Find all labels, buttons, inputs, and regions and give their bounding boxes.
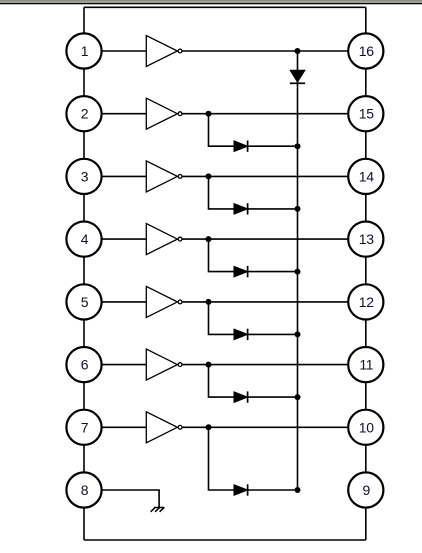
svg-text:3: 3 [81, 168, 89, 184]
wire: pin 2 to inverter 2 input [84, 113, 146, 115]
wire: diode D6 cathode to COM rail [248, 396, 298, 398]
wire: pin 1 to inverter 1 input [84, 50, 146, 52]
wire: right edge bus through pins 16-9 [365, 7, 367, 540]
pin 15 [348, 96, 383, 131]
wire: pin 8 to ground [84, 490, 159, 507]
wire: diode D5 cathode to COM rail [248, 333, 298, 335]
svg-text:16: 16 [359, 43, 374, 59]
junction: D2 cathode on COM rail [295, 143, 301, 149]
pin 12 [348, 284, 383, 319]
wire: inverter 6 output to pin 11 [180, 364, 366, 366]
junction: D6 cathode on COM rail [295, 394, 301, 400]
diode D7 [234, 485, 248, 496]
wire: inverter 7 output to pin 10 [180, 426, 366, 428]
wire: diode D7 cathode to COM rail [248, 489, 298, 491]
svg-text:12: 12 [359, 294, 374, 310]
wire: inverter 2 output to pin 15 [180, 113, 366, 115]
junction: D3 cathode on COM rail [295, 206, 301, 212]
diode D3 [234, 204, 248, 215]
wire: output node 5 down to diode D5 [209, 302, 236, 335]
svg-text:11: 11 [359, 357, 373, 373]
wire: pin 4 to inverter 4 input [84, 238, 146, 240]
pin 10 [348, 410, 383, 445]
svg-text:10: 10 [359, 419, 374, 435]
svg-text:5: 5 [81, 294, 89, 310]
inverter 2 (op-amp style buffer U1B) [146, 98, 182, 129]
pin 9 [348, 472, 383, 507]
junction: inverter 1 output node on pin 16 wire [295, 48, 301, 54]
junction: inverter 5 output node [206, 299, 212, 305]
junction: inverter 3 output node [206, 173, 212, 179]
wire: pin 7 to inverter 7 input [84, 426, 146, 428]
wire: output node 3 down to diode D3 [209, 176, 236, 209]
inverter 4 (op-amp style buffer U1D) [146, 224, 182, 255]
svg-text:14: 14 [359, 168, 374, 184]
svg-text:8: 8 [81, 482, 89, 498]
wire: inverter 1 output to pin 16 [180, 50, 366, 52]
diode D5 [234, 329, 248, 340]
inverter 3 (op-amp style buffer U1C) [146, 161, 182, 192]
pin 5 [66, 284, 101, 319]
svg-text:9: 9 [363, 482, 371, 498]
wire: pin 5 to inverter 5 input [84, 301, 146, 303]
inverter 5 (op-amp style buffer U1E) [146, 286, 182, 317]
pin 2 [66, 96, 101, 131]
inverter 7 (op-amp style buffer U1G) [146, 412, 182, 443]
wire: pin 3 to inverter 3 input [84, 175, 146, 177]
pin 7 [66, 410, 101, 445]
svg-text:4: 4 [81, 231, 89, 247]
wire: COM rail (pin 9 common diode bus) [297, 51, 299, 490]
pin 4 [66, 222, 101, 257]
pin 6 [66, 347, 101, 382]
junction: D7 cathode on COM rail [295, 487, 301, 493]
svg-text:2: 2 [81, 106, 89, 122]
pin 11 [348, 347, 383, 382]
wire: diode D2 cathode to COM rail [248, 145, 298, 147]
pin 3 [66, 159, 101, 194]
diode D2 [234, 141, 248, 152]
diode D1 (vertical, anode at pin 16 node, cathode to COM rail) [290, 70, 305, 82]
diode D6 [234, 392, 248, 403]
junction: inverter 7 output node [206, 424, 212, 430]
junction: D4 cathode on COM rail [295, 269, 301, 275]
svg-text:15: 15 [359, 106, 374, 122]
wire: output node 6 down to diode D6 [209, 365, 236, 398]
pin 1 [66, 33, 101, 68]
diode D4 [234, 266, 248, 277]
pin 13 [348, 222, 383, 257]
junction: D5 cathode on COM rail [295, 331, 301, 337]
wire: inverter 4 output to pin 13 [180, 238, 366, 240]
wire: left edge bus through pins 1-8 [83, 7, 85, 540]
wire: output node 2 down to diode D2 [209, 114, 236, 147]
svg-text:7: 7 [81, 419, 89, 435]
inverter 1 (op-amp style buffer U1A) [146, 36, 182, 67]
wire: inverter 3 output to pin 14 [180, 175, 366, 177]
pin 16 [348, 33, 383, 68]
junction: inverter 6 output node [206, 362, 212, 368]
wire: top edge connecting pin 1 to pin 16 [84, 6, 366, 8]
inverter 6 (op-amp style buffer U1F) [146, 349, 182, 380]
junction: inverter 4 output node [206, 236, 212, 242]
svg-text:13: 13 [359, 231, 374, 247]
wire: pin 6 to inverter 6 input [84, 364, 146, 366]
wire: inverter 5 output to pin 12 [180, 301, 366, 303]
pin 14 [348, 159, 383, 194]
ground symbol [151, 507, 165, 512]
wire: diode D4 cathode to COM rail [248, 271, 298, 273]
wire: diode D3 cathode to COM rail [248, 208, 298, 210]
wire: output node 7 down to diode D7 [209, 427, 236, 490]
wire: bottom edge connecting pin 8 to pin 9 [84, 539, 366, 541]
junction: inverter 2 output node [206, 111, 212, 117]
svg-text:6: 6 [81, 357, 89, 373]
pin 8 [66, 472, 101, 507]
svg-text:1: 1 [81, 43, 89, 59]
wire: output node 4 down to diode D4 [209, 239, 236, 272]
